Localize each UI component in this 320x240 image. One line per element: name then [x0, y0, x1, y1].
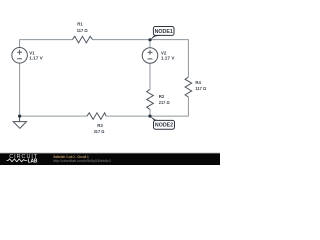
- wire: NODE2 junction to R3 right lead: [106, 115, 150, 117]
- node NODE2 label box: [154, 120, 175, 129]
- wire: NODE1 junction down to V2 top: [149, 40, 151, 48]
- svg-text:NODE1: NODE1: [155, 29, 173, 35]
- svg-text:V2: V2: [161, 50, 167, 56]
- svg-text:1.17 V: 1.17 V: [161, 56, 175, 62]
- wire: R1 right lead through NODE1 to top-right corner down to R4 top: [93, 40, 189, 77]
- svg-text:217 Ω: 217 Ω: [159, 100, 170, 106]
- svg-text:317 Ω: 317 Ω: [94, 129, 105, 135]
- node NODE2 flag pointer: [150, 116, 162, 122]
- svg-text:R4: R4: [195, 80, 201, 86]
- resistor R1: [72, 36, 92, 43]
- ground: [13, 122, 26, 129]
- svg-text:LAB: LAB: [28, 158, 38, 164]
- junction dot at node NODE1: [148, 38, 151, 41]
- node NODE1 label box: [153, 27, 174, 36]
- CircuitLab logo resistor zigzag: [7, 159, 28, 162]
- junction dot at ground corner: [18, 115, 21, 118]
- footer bar soft top edge: [0, 151, 220, 154]
- resistor R3: [87, 113, 106, 120]
- wire: V2 bottom down to R2 top: [149, 64, 151, 90]
- wire: ground stem: [19, 116, 21, 122]
- V2 polarity marks plus minus: [148, 50, 153, 59]
- svg-text:117 Ω: 117 Ω: [77, 28, 88, 34]
- svg-text:R3: R3: [97, 123, 103, 129]
- wire: V1 bottom down to ground junction: [19, 63, 21, 116]
- svg-text:V1: V1: [29, 50, 35, 56]
- wire: R2 bottom to NODE2 junction: [149, 110, 151, 117]
- junction dot at node NODE2: [148, 115, 151, 118]
- footer watermark bar: [0, 153, 220, 165]
- voltage source V2: [142, 48, 158, 64]
- wire: top-left corner from V1 top to R1 left lead: [20, 40, 73, 48]
- svg-text:R1: R1: [77, 22, 83, 28]
- svg-text:NODE2: NODE2: [155, 123, 173, 129]
- wire: R3 left lead to ground junction: [20, 115, 87, 117]
- svg-text:1.17 V: 1.17 V: [29, 56, 43, 62]
- resistor R4: [185, 77, 192, 97]
- svg-text:117 Ω: 117 Ω: [195, 86, 206, 92]
- svg-text:R2: R2: [159, 94, 165, 100]
- voltage source V1: [12, 48, 28, 64]
- wire: R4 bottom to bottom-right corner to NODE2 junction: [150, 97, 188, 116]
- resistor R2: [147, 89, 154, 109]
- node NODE1 flag pointer: [150, 35, 162, 41]
- V1 polarity marks plus minus: [17, 50, 22, 59]
- svg-text:http://circuitlab.com/c/5d5y53: http://circuitlab.com/c/5d5y53hbb6c3: [53, 159, 111, 163]
